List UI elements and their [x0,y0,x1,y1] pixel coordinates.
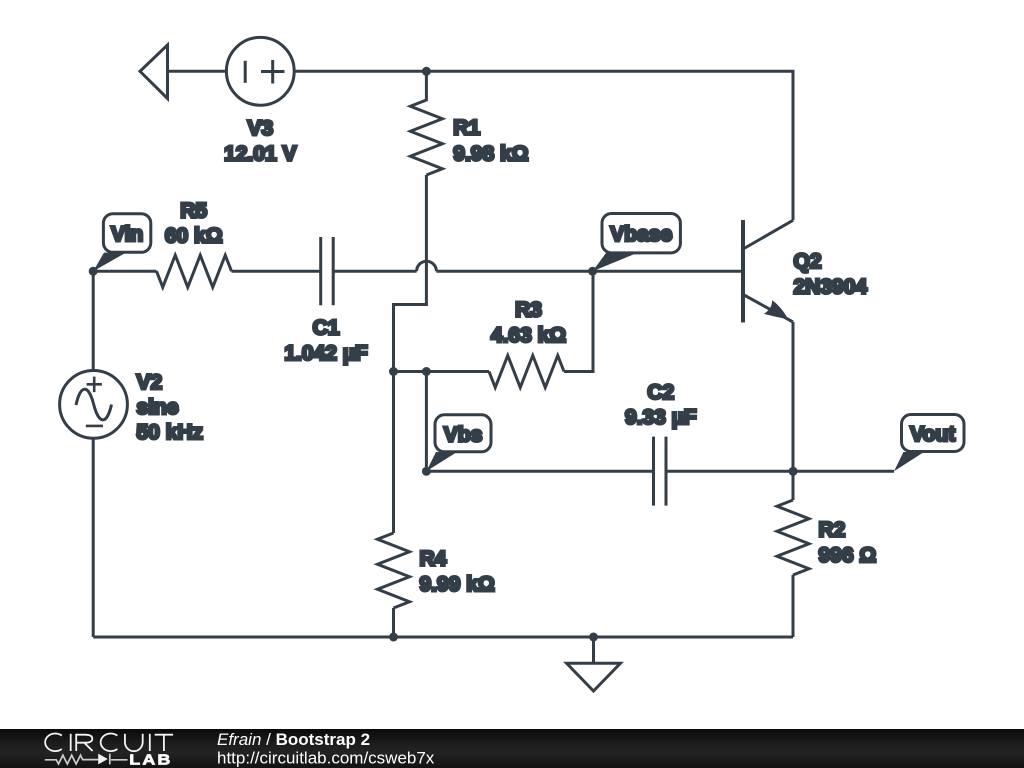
svg-text:sine: sine [137,396,179,419]
svg-text:http://circuitlab.com/csweb7x: http://circuitlab.com/csweb7x [217,748,435,767]
resistor R5 [157,255,232,287]
node Vbase [588,214,680,276]
wire [168,70,227,73]
wire V2 bottom [92,438,95,637]
svg-text:R5: R5 [180,200,207,223]
wire ground rail [93,636,793,639]
svg-text:Q2: Q2 [794,250,822,273]
resistor R2 [777,500,809,575]
svg-text:Vout: Vout [910,423,955,446]
wire R2 bottom [792,575,795,637]
capacitor C2 [654,437,667,506]
svg-text:Efrain / Bootstrap 2: Efrain / Bootstrap 2 [217,730,370,749]
svg-text:12.01 V: 12.01 V [224,143,296,166]
transistor Q2 [743,220,793,323]
wire R3 left [394,370,490,373]
junction [422,367,431,376]
node Vin [89,214,151,276]
wire V2 top [92,271,95,370]
wire top rail to collector [294,71,793,220]
svg-text:9.99 kΩ: 9.99 kΩ [420,573,495,596]
svg-text:R4: R4 [420,548,447,571]
junction [389,367,398,376]
svg-text:V2: V2 [137,371,163,394]
wire R1 bottom jog [394,175,427,372]
svg-text:Vin: Vin [111,223,143,246]
wire down to Vbs [425,372,428,472]
wire Vin to R5 [93,270,156,273]
wire hop over R1 branch [417,261,437,271]
wire C2 to Vout [666,470,894,473]
node Vbs [422,415,491,476]
wire R4 bottom [392,608,395,637]
wire R2 top [792,471,795,500]
resistor R3 [489,356,564,388]
resistor R4 [378,533,410,608]
svg-text:60 kΩ: 60 kΩ [165,224,223,247]
wire C1 to hop [333,270,416,273]
junction [789,467,798,476]
svg-text:9.98 kΩ: 9.98 kΩ [453,142,528,165]
power flag [140,45,168,99]
resistor R1 [410,71,442,175]
svg-text:4.63 kΩ: 4.63 kΩ [491,324,566,347]
svg-text:C1: C1 [313,317,340,340]
svg-text:LAB: LAB [129,751,172,768]
capacitor C1 [321,237,334,305]
footer [0,729,1024,768]
wire hop to base [436,270,741,273]
junction [422,67,431,76]
svg-text:2N3904: 2N3904 [794,276,868,299]
wire Vbs to C2 [426,470,653,473]
svg-text:Vbs: Vbs [444,423,483,446]
wire emitter down [792,322,795,471]
svg-text:R2: R2 [819,519,846,542]
ground [567,633,621,692]
svg-text:R3: R3 [515,299,542,322]
wire R5 to C1 [232,270,321,273]
svg-text:C2: C2 [647,381,674,404]
wire R3 right up to Vbase [564,271,593,371]
junction [389,633,398,642]
svg-text:R1: R1 [453,117,480,140]
svg-text:50 kHz: 50 kHz [137,421,204,444]
voltage source V3 [226,37,294,105]
svg-text:Vbase: Vbase [610,223,672,246]
sine source V2 [60,371,128,439]
node Vout [894,415,964,472]
svg-text:996 Ω: 996 Ω [819,544,877,567]
svg-text:V3: V3 [247,117,273,140]
svg-text:1.042 µF: 1.042 µF [284,342,367,365]
svg-text:9.33 µF: 9.33 µF [625,406,697,429]
wire R4 top [392,372,395,534]
